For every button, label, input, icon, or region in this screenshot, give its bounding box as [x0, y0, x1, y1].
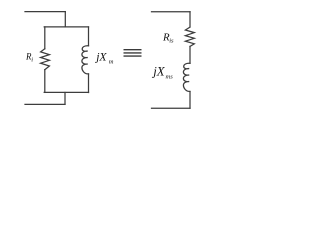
- svg-text:jX: jX: [151, 64, 166, 78]
- label R_i: [25, 52, 33, 64]
- wire left branch upper: [44, 27, 46, 49]
- svg-text:m: m: [109, 59, 114, 66]
- wire top bus bar: [44, 26, 88, 28]
- wire top-right terminal: [152, 11, 191, 13]
- wire bottom-right terminal: [152, 107, 191, 109]
- svg-text:ms: ms: [166, 74, 174, 81]
- svg-text:jX: jX: [94, 50, 107, 63]
- label jX_m: [94, 50, 114, 65]
- wire right branch upper: [88, 27, 90, 46]
- wire bottom-left terminal: [25, 103, 65, 105]
- label R_is: [162, 31, 174, 44]
- label jX_ms: [151, 64, 173, 80]
- wire bottom stub: [64, 93, 66, 105]
- wire right series middle: [189, 46, 191, 63]
- svg-text:i: i: [31, 57, 33, 64]
- wire right branch lower: [88, 74, 90, 93]
- equivalence symbol: [124, 50, 142, 56]
- wire right series top: [189, 12, 191, 27]
- wire left branch lower: [44, 70, 46, 93]
- resistor R_i: [41, 49, 50, 70]
- wire bottom bus bar: [44, 91, 88, 93]
- inductor jX_m: [82, 46, 89, 74]
- resistor R_is: [185, 27, 194, 46]
- inductor jX_ms: [183, 63, 190, 91]
- wire top-left terminal: [25, 11, 65, 13]
- svg-text:is: is: [169, 38, 174, 45]
- wire top stub: [64, 12, 66, 27]
- wire right series bottom: [189, 92, 191, 109]
